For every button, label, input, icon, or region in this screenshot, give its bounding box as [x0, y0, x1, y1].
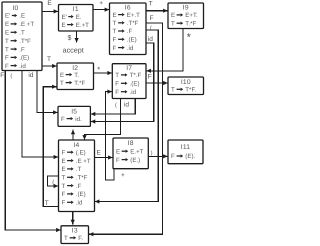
svg-text:T: T	[171, 20, 175, 27]
wire F: I4 to I3	[71, 212, 75, 225]
svg-text:E: E	[47, 0, 52, 7]
state I9	[168, 3, 204, 29]
svg-text:E: E	[60, 72, 64, 79]
state I6	[110, 3, 147, 55]
svg-text:I6: I6	[125, 4, 131, 11]
svg-text:T: T	[5, 46, 9, 53]
svg-text:I10: I10	[181, 79, 191, 86]
svg-text:E.+T: E.+T	[130, 148, 143, 155]
wire id: I0 to I5	[28, 71, 57, 115]
svg-text:.E +T: .E +T	[76, 158, 91, 165]
svg-text:I11: I11	[181, 144, 190, 151]
svg-text:E′: E′	[62, 14, 68, 21]
svg-text:accept: accept	[63, 45, 84, 54]
svg-text:F: F	[113, 37, 117, 44]
svg-text:F: F	[113, 45, 117, 52]
svg-text:T: T	[62, 183, 66, 190]
svg-text:T: T	[47, 56, 51, 63]
svg-text:T.*F: T.*F	[185, 20, 196, 27]
svg-text:.E: .E	[19, 13, 25, 20]
svg-text:T: T	[5, 38, 9, 45]
svg-text:I9: I9	[183, 5, 189, 12]
svg-text:E.+T: E.+T	[76, 22, 89, 29]
svg-text:F: F	[5, 55, 9, 62]
svg-text:F: F	[61, 116, 65, 123]
svg-text:E+T.: E+T.	[185, 12, 198, 19]
svg-text:T.*F: T.*F	[74, 80, 85, 87]
wire (: I0 to I4	[10, 71, 58, 160]
svg-text:E+.T: E+.T	[127, 12, 140, 19]
wire E: I4 to I8	[95, 149, 113, 159]
svg-text:.F: .F	[76, 183, 82, 190]
wire T: I6 to I9	[146, 0, 168, 12]
svg-text:E: E	[62, 166, 66, 173]
svg-text:T: T	[171, 87, 175, 94]
svg-text:.id: .id	[19, 63, 26, 70]
svg-text:F: F	[5, 63, 9, 70]
svg-text:F: F	[115, 81, 119, 88]
svg-text:.id: .id	[127, 45, 134, 52]
wire +: I1 to I6	[93, 0, 109, 12]
svg-text:I1: I1	[73, 6, 79, 13]
svg-text:I8: I8	[128, 140, 134, 147]
svg-text:T: T	[62, 175, 66, 182]
svg-text:.id: .id	[130, 89, 137, 96]
state I8	[113, 138, 148, 169]
svg-text:E: E	[62, 22, 66, 29]
svg-text:I3: I3	[72, 228, 78, 235]
svg-text:(E.): (E.)	[130, 157, 140, 164]
state I0	[2, 2, 42, 71]
svg-text:E.: E.	[76, 14, 82, 21]
svg-text:E: E	[5, 21, 9, 28]
state I3	[61, 226, 89, 244]
svg-text:.T*F: .T*F	[127, 20, 139, 27]
svg-text:+: +	[99, 0, 103, 7]
svg-text:I7: I7	[126, 65, 132, 72]
svg-text:E′: E′	[5, 13, 11, 20]
svg-text:T.: T.	[74, 72, 79, 79]
svg-text:.E +T: .E +T	[19, 21, 34, 28]
svg-text:.id: .id	[76, 200, 83, 207]
svg-text:T: T	[60, 80, 64, 87]
wire (: I6 to I4	[95, 24, 158, 203]
svg-text:id: id	[28, 72, 33, 79]
state I7	[112, 64, 146, 99]
svg-text:E: E	[5, 30, 9, 37]
svg-text:.(E): .(E)	[127, 37, 137, 44]
svg-text:id.: id.	[75, 116, 82, 123]
svg-text:*: *	[97, 65, 100, 74]
wire (: I7 to I4	[82, 99, 120, 140]
svg-text:id: id	[124, 101, 129, 108]
svg-text:F: F	[62, 149, 66, 156]
wire F: I7 to I10	[146, 74, 168, 86]
svg-text:F: F	[0, 72, 4, 79]
svg-text:E: E	[116, 148, 120, 155]
svg-text:T: T	[149, 0, 153, 7]
wire F: I0 to I3	[0, 71, 60, 233]
state I10	[168, 77, 204, 95]
state I5	[58, 106, 90, 126]
svg-text:T: T	[64, 235, 68, 242]
svg-text:$: $	[68, 34, 72, 42]
wire T: I4 to I2	[43, 85, 58, 207]
svg-text:F: F	[150, 15, 154, 22]
wire $: I1 to accept	[68, 31, 79, 43]
svg-text:I5: I5	[71, 108, 77, 115]
svg-text:F: F	[148, 74, 152, 81]
svg-text:I4: I4	[74, 142, 80, 149]
svg-text:.(E): .(E)	[130, 81, 140, 88]
wire id: I7 to I5	[91, 99, 136, 117]
wire ( self-loop on I4	[48, 176, 59, 188]
svg-text:+: +	[121, 172, 125, 179]
wire E: I0 to I1	[42, 0, 58, 13]
svg-text:T: T	[113, 28, 117, 35]
state I4	[59, 140, 95, 212]
svg-text:T: T	[113, 20, 117, 27]
svg-text:.F: .F	[19, 46, 25, 53]
svg-text:): )	[151, 149, 153, 156]
svg-text:.(E): .(E)	[19, 55, 29, 62]
svg-text:F: F	[116, 157, 120, 164]
svg-text:E: E	[171, 12, 175, 19]
svg-text:T: T	[45, 200, 49, 207]
svg-text:(: (	[52, 179, 54, 186]
wire *: I2 to I7	[94, 65, 113, 75]
svg-text:.T*F: .T*F	[19, 38, 31, 45]
svg-text:.(E): .(E)	[76, 191, 86, 198]
svg-text:E: E	[62, 158, 66, 165]
svg-text:(: (	[115, 102, 117, 109]
svg-text:(: (	[150, 24, 152, 31]
svg-text:F: F	[171, 153, 175, 160]
state I2	[57, 63, 94, 90]
state I1	[59, 5, 94, 32]
wire T: I0 to I2	[42, 56, 57, 68]
wire id: I4 to I5	[71, 130, 75, 140]
wire id: I6 to I5	[91, 36, 154, 124]
svg-text:F.: F.	[78, 235, 83, 242]
svg-text:.T: .T	[76, 166, 82, 173]
svg-text:.F: .F	[127, 28, 133, 35]
wire F: I6 to I3	[89, 15, 163, 236]
svg-text:F: F	[62, 200, 66, 207]
svg-text:.T: .T	[19, 30, 25, 37]
svg-text:F: F	[62, 191, 66, 198]
svg-text:*: *	[187, 31, 191, 43]
wire +: I8 to I7	[106, 90, 126, 181]
svg-text:.T*F: .T*F	[76, 175, 88, 182]
svg-text:(: (	[10, 72, 12, 79]
svg-text:F: F	[115, 89, 119, 96]
svg-text:id: id	[148, 36, 153, 43]
svg-text:T*F.: T*F.	[185, 87, 196, 94]
svg-text:E: E	[97, 149, 102, 156]
svg-text:T: T	[115, 72, 119, 79]
wire ): I8 to I11	[148, 149, 167, 158]
svg-text:(.E): (.E)	[76, 149, 86, 156]
wire *: I9 to I7	[146, 29, 191, 73]
svg-text:(E).: (E).	[185, 153, 195, 160]
svg-text:I0: I0	[13, 5, 19, 12]
state I11	[168, 140, 203, 164]
svg-text:T*.F: T*.F	[130, 72, 142, 79]
svg-text:E: E	[113, 12, 117, 19]
